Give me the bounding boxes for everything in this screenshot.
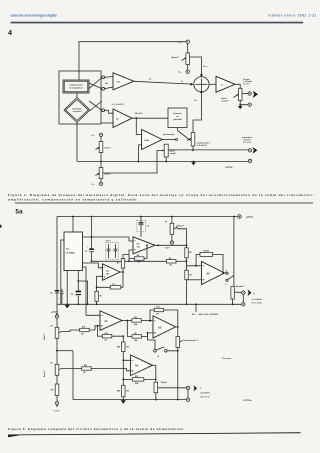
svg-text:R9: R9 <box>134 333 136 335</box>
svg-text:R15: R15 <box>105 333 108 335</box>
svg-text:(no inversión): (no inversión) <box>163 134 175 136</box>
node dot chain <box>122 335 124 337</box>
switch lever <box>178 131 191 141</box>
svg-text:Compensación: Compensación <box>70 85 83 87</box>
terminal +7.5V top <box>233 215 241 219</box>
resistor R2 divider upper <box>185 248 192 258</box>
node dot <box>146 244 148 246</box>
wire: column between pots <box>56 338 58 364</box>
switch A contact left <box>154 350 157 353</box>
wire: A2 output node <box>176 326 178 328</box>
wire: column to R17 <box>56 375 58 384</box>
wire: A4 feedback loop <box>144 365 156 379</box>
svg-text:4: 4 <box>8 28 12 37</box>
svg-text:Escala P: Escala P <box>236 286 245 288</box>
terminal -7.5V mid <box>164 241 174 250</box>
svg-text:Conversor: Conversor <box>173 113 182 115</box>
svg-text:(= 30 mV/°C): (= 30 mV/°C) <box>197 145 207 147</box>
terminal Vref left minus <box>99 133 102 136</box>
svg-text:87075 4: 87075 4 <box>226 166 234 169</box>
bottom rule <box>8 432 301 437</box>
svg-text:10k: 10k <box>104 340 107 342</box>
node dot <box>100 161 102 163</box>
svg-text:R17: R17 <box>51 390 54 392</box>
node dot divider/IC3out <box>186 244 188 246</box>
svg-text:Pₐ = 0 V: Pₐ = 0 V <box>243 84 250 86</box>
svg-text:escala P: escala P <box>222 100 230 102</box>
ground bus <box>77 123 248 162</box>
wire: bus left riser <box>72 351 74 400</box>
op-amp IC3 741 <box>133 237 155 254</box>
switch C/F contact b <box>226 279 228 281</box>
op-amp buffer 1x <box>216 76 235 92</box>
wire: R5 connections <box>123 255 129 273</box>
wire: R17 to -7.5 terminal <box>56 396 58 402</box>
svg-text:R16: R16 <box>82 327 85 329</box>
arrowhead into summer top <box>200 74 203 77</box>
ground symbol bottom <box>121 399 126 404</box>
op-amp A1 <box>100 311 122 331</box>
op-amp IC1a <box>113 73 134 90</box>
svg-text:+10 mV/°C: +10 mV/°C <box>200 393 210 395</box>
wire: Offset P wiper to divider column <box>177 229 187 248</box>
resistor R1 input bias <box>95 291 102 301</box>
wire: divider mid <box>186 258 188 270</box>
svg-text:Offset T: Offset T <box>43 333 46 340</box>
node dot on bus <box>138 161 140 163</box>
wire: crossing X upper (bridge leads) <box>89 78 102 89</box>
separator rule under caption 4 <box>15 202 313 205</box>
dashed box C2 C3 <box>106 243 119 260</box>
wire: R15 loop <box>98 326 124 336</box>
node dot <box>232 303 234 305</box>
svg-text:A1 . . . A4 = IC4 = LM 324: A1 . . . A4 = IC4 = LM 324 <box>192 313 218 316</box>
ground symbol 2 <box>77 303 88 305</box>
svg-text:R13: R13 <box>84 365 87 367</box>
ground symbol on bus <box>191 161 196 166</box>
terminal P plus <box>248 92 251 95</box>
svg-text:+7,5 V: +7,5 V <box>51 311 58 314</box>
node dot <box>155 399 157 401</box>
terminal T minus <box>186 398 189 401</box>
node dot <box>195 303 197 305</box>
wire: switch right from 0V column <box>167 304 196 351</box>
wire: summer to buffer <box>209 83 216 85</box>
wire: IC1 pin3 to A1 input <box>83 267 101 315</box>
svg-text:10k: 10k <box>169 264 172 266</box>
resistor R7 feedback IC2 <box>110 284 121 289</box>
wire: op-amp3 output to switch <box>162 139 175 141</box>
wire: T plus line <box>168 149 248 151</box>
wire: rail drop to IC1 top <box>72 217 74 233</box>
svg-text:C5: C5 <box>147 226 149 228</box>
wire: R6 to divider <box>176 260 187 262</box>
wire: A1 out down to R9 <box>127 321 132 337</box>
wire: R1 to 0V <box>96 301 98 304</box>
op-amp A4 <box>131 355 153 376</box>
wire: C1 to line261 <box>91 252 93 261</box>
resistor R11 <box>154 307 164 316</box>
svg-text:Ajuste T: Ajuste T <box>43 369 46 377</box>
terminal Vref top <box>186 40 189 43</box>
wire: Offset P bottom to -7.5 terminal <box>171 234 173 241</box>
node circle sensor out 1 <box>102 76 105 79</box>
wire: Ajuste T wiper to escala T pot <box>103 151 164 174</box>
wire: rail to Offset P <box>171 217 173 224</box>
node dot after op2 <box>135 117 137 119</box>
svg-text:Offset P: Offset P <box>176 224 184 227</box>
ground under P pot <box>238 105 243 110</box>
svg-text:+: + <box>87 247 88 249</box>
svg-text:− 7,5 V: − 7,5 V <box>164 247 171 249</box>
capacitor C1 (electrolytic) <box>85 247 94 254</box>
wire: Vref to pot Ajuste P <box>187 43 189 53</box>
resistor R14 <box>117 342 129 352</box>
op-amp A3 <box>202 262 225 285</box>
node dot on 0V <box>96 303 98 305</box>
svg-text:Figura 4. Diagrama de bloques: Figura 4. Diagrama de bloques del baróme… <box>8 193 314 197</box>
signal ground line (0V) <box>57 303 241 305</box>
svg-text:R3: R3 <box>190 274 192 276</box>
node dot <box>186 303 188 305</box>
svg-text:C1: C1 <box>85 251 87 253</box>
svg-text:T-Ajuste: T-Ajuste <box>161 381 168 384</box>
svg-text:Vₐₒₓ: Vₐₒₓ <box>91 135 95 137</box>
resistor R15 feedback A1 <box>102 333 112 342</box>
resistor R5 <box>117 259 125 269</box>
capacitor C4 <box>50 291 59 295</box>
wire: pot wiper to P+ terminal <box>242 93 248 95</box>
svg-text:R14: R14 <box>117 345 120 348</box>
wire: sensor node3 to op-amp2 input <box>105 110 113 113</box>
svg-text:P1: P1 <box>165 222 167 224</box>
wire: pot wiper to summer top <box>190 57 202 75</box>
wire: A4 output <box>153 364 156 366</box>
wire: mid line to A3 input1 <box>187 261 197 266</box>
svg-text:R18: R18 <box>117 391 120 393</box>
potentiometer compensacion T <box>187 133 195 147</box>
terminal P minus <box>248 103 251 106</box>
output arrow P (black) <box>248 289 252 296</box>
svg-text:Vₐₒₓ: Vₐₒₓ <box>91 184 95 186</box>
svg-text:escala T: escala T <box>170 153 178 155</box>
summer circle <box>194 77 209 92</box>
potentiometer Ajuste T <box>96 168 103 179</box>
potentiometer Escala T <box>154 379 167 392</box>
terminal P plus out <box>242 291 245 294</box>
wire: left supply column <box>56 217 58 315</box>
wire to pot offset T <box>100 137 102 142</box>
wire: IC3 lower input <box>129 250 133 261</box>
wire: R7 loop to IC2 input <box>97 276 123 287</box>
potentiometer Ajuste P <box>182 53 190 65</box>
svg-text:R12: R12 <box>135 376 138 378</box>
node dot <box>126 320 128 322</box>
svg-text:P3: P3 <box>51 363 53 365</box>
wire: R18 to bottom bus <box>122 397 124 400</box>
svg-text:10k: 10k <box>126 391 129 393</box>
node dot <box>122 379 124 381</box>
op-amp A2 <box>153 316 176 338</box>
wire: IC1 bottom pin to ground line <box>66 271 68 305</box>
wire: node down to op-amp3 <box>136 118 141 134</box>
svg-text:R4: R4 <box>137 254 139 257</box>
wire: summer bottom to pot comp T <box>193 98 201 133</box>
node circle sensor out 3 <box>102 109 105 112</box>
svg-text:Uₚ: Uₚ <box>149 79 151 81</box>
svg-text:P2: P2 <box>51 326 53 328</box>
wire: sensor node1 to op-amp1 <box>105 76 113 79</box>
svg-text:100k: 100k <box>134 324 138 326</box>
svg-text:U₀ (−10 mV/°C): U₀ (−10 mV/°C) <box>112 104 124 106</box>
wire: R4 feedback <box>129 245 147 258</box>
left page-edge mark <box>0 225 1 228</box>
wire: pot bottom to P- terminal and ground <box>240 100 248 104</box>
wire: wiper to R16 <box>62 330 80 332</box>
resistor R18 <box>117 385 129 397</box>
svg-text:polaridad: polaridad <box>173 119 181 121</box>
node dot <box>239 104 241 106</box>
wire: IC2 input node down <box>96 287 98 291</box>
wire: wiper2 to R13 <box>62 368 82 370</box>
resistor R12 <box>132 376 144 385</box>
wire: IC2 output down <box>120 272 123 287</box>
svg-text:ΔUₚ: ΔUₚ <box>105 83 108 85</box>
node dot <box>128 260 130 262</box>
svg-text:0 V = 0 mb: 0 V = 0 mb <box>252 303 263 305</box>
wire: bypass loop around C2 <box>78 281 87 304</box>
terminal T plus <box>248 149 251 152</box>
svg-text:Compensación T: Compensación T <box>183 340 199 342</box>
capacitor in dashed box b <box>114 244 118 258</box>
resistor R16 <box>80 327 90 336</box>
decoupling capacitor C5 from rail to IC3 <box>137 216 149 237</box>
wire: Escala P wiper to P+ <box>237 292 244 302</box>
svg-text:Vₐₒₓ: Vₐₒₓ <box>178 72 182 74</box>
wire: pot bottom to T line <box>192 146 194 150</box>
node dot T line <box>192 149 194 151</box>
wire: R9 to A2 input2 <box>142 333 154 337</box>
transductor de presion diamond <box>64 98 90 123</box>
resistor R17 <box>51 384 59 396</box>
header rule <box>11 22 304 24</box>
svg-text:Ajuste P: Ajuste P <box>172 56 180 59</box>
node dot on rail <box>91 216 93 218</box>
svg-text:Ajuste: Ajuste <box>170 150 175 153</box>
svg-text:C2: C2 <box>71 294 73 296</box>
wire: pot to bus node <box>100 153 102 162</box>
node dot <box>97 325 99 327</box>
resistor R6 on mid line <box>167 258 177 267</box>
wire: crossing X lower (bridge leads) <box>89 101 102 111</box>
node circle sensor out 2 <box>102 87 105 90</box>
potentiometer offset T <box>96 142 103 153</box>
potentiometer Ajuste T (left column) <box>43 363 62 378</box>
node dot <box>122 271 124 273</box>
wire: lower column top <box>56 318 58 327</box>
terminal Vref left plus <box>99 182 102 185</box>
wire: bus to pot Ajuste T <box>100 162 102 168</box>
op-amp 5x <box>113 109 132 128</box>
wire: chain to R18 <box>122 360 124 385</box>
resistor R4 <box>135 254 145 264</box>
wire: R8 to A3 output <box>213 254 224 272</box>
svg-text:R7: R7 <box>113 284 115 286</box>
svg-text:= 1 mV/mb: = 1 mV/mb <box>252 299 263 301</box>
wire: rail to C1 <box>91 217 93 249</box>
wire: Escala T bottom to bus <box>155 393 157 400</box>
svg-text:de: de <box>176 116 178 118</box>
terminal T plus out <box>186 386 189 389</box>
node dot IC3 out <box>157 244 159 246</box>
svg-text:R2: R2 <box>189 252 191 254</box>
wire: divider to 0V line <box>186 280 188 305</box>
svg-text:Figura 5. Esquema completo del: Figura 5. Esquema completo del circuito … <box>8 427 184 431</box>
switch A lever <box>156 347 164 350</box>
wire: box top feed <box>78 71 80 80</box>
capacitor C4a small <box>59 289 64 304</box>
wire: IC1 bottom pin2 to cap C2 <box>77 271 79 305</box>
output arrow T (black) <box>193 385 197 391</box>
wire: op-amp2 lower input from box edge <box>101 122 113 124</box>
wire: sensor node2 to op-amp1 inverting input <box>105 87 113 89</box>
wire: A2 out down to pot <box>177 327 179 337</box>
wire: A2 feedback up <box>164 310 178 327</box>
potentiometer Offset T (left column) <box>43 326 62 341</box>
output arrow T (black) <box>253 147 258 154</box>
svg-text:Vₐₒₓ: Vₐₒₓ <box>178 42 182 44</box>
svg-text:R1: R1 <box>100 296 102 298</box>
wire: rail drop to Escala P pot <box>233 217 235 287</box>
svg-text:100k: 100k <box>134 340 138 342</box>
wire: chain down to R14 <box>122 336 124 342</box>
op-amp 6.66x <box>142 130 163 150</box>
svg-text:amplificación, compensación en: amplificación, compensación en temperatu… <box>8 197 138 201</box>
node dot <box>171 216 173 218</box>
wire: buffer out to pot Ajuste escala P <box>235 84 240 88</box>
wire: switch left to A2 input column <box>148 333 156 350</box>
wire: pot to Vref plus <box>100 179 102 183</box>
svg-text:de temperatura: de temperatura <box>70 87 84 90</box>
+7.5V top rail <box>57 216 238 218</box>
svg-text:LX 0503A: LX 0503A <box>66 251 76 254</box>
svg-text:C4: C4 <box>50 292 52 295</box>
wire: Escala T wiper to T+ <box>158 387 187 389</box>
switch A contact right <box>165 350 168 353</box>
output arrow P (black) <box>253 91 258 99</box>
wire: A3 feedback junction <box>196 254 201 265</box>
svg-text:F: F <box>225 284 226 286</box>
resistor R13 <box>82 365 92 374</box>
op-amp IC2 741 <box>103 264 121 281</box>
wire: inner box to diamond <box>76 93 78 98</box>
wire: Escala P bottom to 0V <box>232 299 234 304</box>
capacitor C2 (electrolytic) <box>71 292 81 296</box>
switch C/F contact a <box>226 272 228 274</box>
wire: op-amp2 out to conversor box <box>132 117 168 119</box>
svg-text:0 V = 0 °C: 0 V = 0 °C <box>200 396 210 398</box>
wire: A1 out node <box>122 320 132 322</box>
svg-text:estación meteorológica digital: estación meteorológica digital <box>11 13 57 17</box>
potentiometer Ajuste escala T <box>164 144 168 157</box>
switch lever <box>228 275 234 279</box>
svg-text:* Ver texto: * Ver texto <box>222 357 232 360</box>
wire: IC1 left pin branch <box>61 240 64 304</box>
wire: A3 out to switch <box>225 272 226 274</box>
wire: escala T pot to bus <box>165 157 167 162</box>
svg-text:5a: 5a <box>15 208 23 215</box>
terminal -7.5V bottom <box>53 402 61 413</box>
wire: A3 lower input from divider <box>187 279 202 281</box>
node dot feedback junction <box>195 265 197 267</box>
node dot on bus <box>177 399 179 401</box>
svg-text:offset T: offset T <box>105 146 112 149</box>
capacitor in dashed box a <box>107 244 111 258</box>
wire+arrow into summer bottom <box>200 93 202 98</box>
svg-text:R11: R11 <box>157 307 160 309</box>
node dot on mid line <box>186 260 188 262</box>
resistor R9 <box>132 333 142 342</box>
terminal P minus (0V) <box>242 303 245 306</box>
svg-text:elektor enero 1982 1-21: elektor enero 1982 1-21 <box>268 13 317 17</box>
arrowhead into summer left <box>191 83 194 86</box>
svg-text:+: + <box>59 298 60 300</box>
node dot rail/IC1 <box>72 216 74 218</box>
node dot <box>147 332 149 334</box>
wire: R11 to A2 input <box>150 310 154 321</box>
wire: IC3 output node <box>155 244 187 246</box>
node dot <box>122 359 124 361</box>
node dot C1 top <box>91 236 93 238</box>
resistor R3 divider lower <box>185 270 192 280</box>
svg-text:10k: 10k <box>126 346 129 348</box>
wire: pot bottom long drop to bus <box>177 347 179 399</box>
svg-text:Uₚ: Uₚ <box>181 81 183 83</box>
lower +7.5V terminal <box>51 311 59 318</box>
block: compensacion de temperatura <box>63 80 89 93</box>
svg-text:10k: 10k <box>137 262 140 264</box>
resistor R10 <box>132 317 142 326</box>
svg-text:R8 10k: R8 10k <box>204 251 210 253</box>
node dot <box>149 320 151 322</box>
potentiometer Ajuste escala P <box>234 88 243 100</box>
svg-text:+7,5 V: +7,5 V <box>246 216 253 219</box>
svg-text:100 mV/°C: 100 mV/°C <box>135 113 144 115</box>
node dot loop <box>77 280 79 282</box>
conversor de polaridad box <box>168 108 187 128</box>
svg-text:0 °C = 0 V: 0 °C = 0 V <box>243 142 252 144</box>
mid reference line <box>92 260 167 262</box>
svg-text:C6 C7: C6 C7 <box>106 241 111 243</box>
wire: R14 to A4 input <box>123 352 130 361</box>
IC1 LX0503A box <box>64 232 83 271</box>
svg-text:100k: 100k <box>135 383 139 385</box>
wire: op-amp3 lower input to bus <box>138 145 141 162</box>
svg-text:A2: A2 <box>158 325 162 329</box>
node dot <box>165 161 167 163</box>
node dot <box>177 326 179 328</box>
node dot <box>91 260 93 262</box>
terminal T minus <box>248 159 251 162</box>
resistor R8 <box>200 251 213 257</box>
node dot A4 fb <box>155 379 157 381</box>
potentiometer Escala P <box>231 286 245 299</box>
transducer unit outer box <box>59 71 101 124</box>
wire: pot bottom to Vref minus <box>187 65 189 70</box>
potentiometer Compensacion T <box>176 337 199 348</box>
wire: R13 to A4 input2 <box>91 369 130 371</box>
node dot A3 out <box>222 272 224 274</box>
